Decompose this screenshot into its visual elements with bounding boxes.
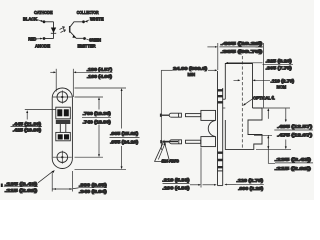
dimension .985/.955 overall height xyxy=(75,88,127,169)
svg-text:.425 (10.80): .425 (10.80) xyxy=(13,128,42,133)
dimension .405/.385 top xyxy=(207,43,263,108)
dimension .380/.340 bottom width xyxy=(52,171,107,192)
diode D1 LED xyxy=(51,22,56,39)
svg-text:.135 (3.43): .135 (3.43) xyxy=(275,157,312,162)
svg-text:24.00 (609.6): 24.00 (609.6) xyxy=(173,66,208,71)
svg-text:GREEN: GREEN xyxy=(89,37,101,42)
svg-text:.445 (11.30): .445 (11.30) xyxy=(13,122,42,127)
light arrows xyxy=(60,27,66,33)
svg-text:.740 (18.80): .740 (18.80) xyxy=(83,119,112,124)
svg-text:ANODE: ANODE xyxy=(35,44,50,49)
label RED with leader xyxy=(28,37,43,42)
svg-text:.340 (8.64): .340 (8.64) xyxy=(79,189,108,194)
svg-text:MIN: MIN xyxy=(188,72,195,77)
svg-text:.405 (10.29): .405 (10.29) xyxy=(221,41,264,46)
wire anode-cathode left verticals xyxy=(43,20,86,39)
svg-text:.110 (2.79): .110 (2.79) xyxy=(270,78,294,83)
lead row upper xyxy=(161,110,216,120)
dimension .180/.160 top of front view xyxy=(50,69,112,97)
dimension 24.00 MIN xyxy=(161,69,217,150)
svg-text:.385 (09.78): .385 (09.78) xyxy=(221,49,264,54)
svg-text:.110 (2.79): .110 (2.79) xyxy=(236,178,264,183)
svg-text:WHITE: WHITE xyxy=(90,17,104,22)
wire anode lead xyxy=(44,38,54,40)
dimension .135/.115 bottom-left radius xyxy=(4,170,55,187)
svg-text:.495 (12.57): .495 (12.57) xyxy=(277,124,313,129)
label WHITE with leader xyxy=(85,17,104,23)
lead row lower xyxy=(161,137,215,147)
svg-text:.475 (12.07): .475 (12.07) xyxy=(277,132,313,137)
wire leads between blocks xyxy=(60,124,66,132)
label BLACK with leader xyxy=(23,17,44,22)
svg-text:.180 (4.57): .180 (4.57) xyxy=(87,67,113,72)
dimension .445/.425 left callout xyxy=(11,110,57,127)
label OPTICAL centerline xyxy=(243,98,255,106)
svg-text:.135 (3.43): .135 (3.43) xyxy=(5,182,39,187)
svg-text:.380 (9.65): .380 (9.65) xyxy=(79,182,108,187)
dimension .110 NOM xyxy=(234,79,271,81)
svg-text:#26 AWG: #26 AWG xyxy=(162,159,180,164)
dimension .135/.115 right xyxy=(275,162,313,164)
dimension ext package bottom xyxy=(256,148,291,150)
svg-text:.160 (4.06): .160 (4.06) xyxy=(87,74,113,79)
dimension .210/.190 bottom xyxy=(190,148,236,188)
label GREEN with leader xyxy=(86,37,101,42)
svg-text:EMITTER: EMITTER xyxy=(78,44,96,49)
package body profile xyxy=(223,64,262,150)
svg-text:.210 (5.33): .210 (5.33) xyxy=(162,178,190,183)
svg-text:.090 (2.29): .090 (2.29) xyxy=(238,186,264,191)
note triangle flag xyxy=(155,141,178,162)
label #26 AWG leader xyxy=(158,142,166,159)
node emitter terminal dot xyxy=(83,37,86,40)
svg-text:COLLECTOR: COLLECTOR xyxy=(77,10,99,15)
svg-text:RED: RED xyxy=(28,37,36,42)
body outline stadium xyxy=(52,88,72,169)
svg-text:CATHODE: CATHODE xyxy=(34,10,53,15)
notch arc between lead blocks xyxy=(208,121,215,137)
svg-text:OPTICAL ℄: OPTICAL ℄ xyxy=(253,96,275,101)
svg-text:.780 (19.30): .780 (19.30) xyxy=(83,111,112,116)
package block lower xyxy=(56,132,71,140)
transistor Q1 phototransistor xyxy=(70,22,85,39)
dimension .325/.305 leader xyxy=(225,62,293,64)
svg-text:.305 (7.75): .305 (7.75) xyxy=(266,66,293,71)
node anode terminal dot xyxy=(43,37,46,40)
svg-text:BLACK: BLACK xyxy=(23,17,37,22)
node cathode terminal dot xyxy=(43,20,46,23)
dimension .495/.475 right xyxy=(254,108,313,163)
mounting hole top xyxy=(53,90,72,103)
note mark xyxy=(1,184,3,188)
svg-text:.115 (2.92): .115 (2.92) xyxy=(275,166,312,171)
wire cathode lead xyxy=(44,21,54,23)
node collector terminal dot xyxy=(82,20,85,23)
svg-text:NOM: NOM xyxy=(277,84,287,89)
svg-text:.115 (2.92): .115 (2.92) xyxy=(5,188,39,193)
flange plate edge-on xyxy=(218,71,223,186)
svg-text:.325 (8.26): .325 (8.26) xyxy=(266,58,293,63)
svg-text:.955 (24.26): .955 (24.26) xyxy=(110,140,139,145)
svg-text:.985 (25.02): .985 (25.02) xyxy=(110,131,139,136)
svg-text:.190 (4.83): .190 (4.83) xyxy=(162,185,190,190)
optical centerline dashed xyxy=(241,56,243,149)
package block upper xyxy=(56,107,71,124)
mounting hole bottom xyxy=(53,151,72,164)
dimension .780/.740 hole spacing xyxy=(75,97,104,157)
